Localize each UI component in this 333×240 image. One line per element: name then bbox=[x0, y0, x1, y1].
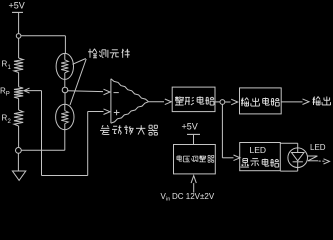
svg-text:LED: LED bbox=[250, 145, 267, 155]
svg-text:LED: LED bbox=[310, 143, 326, 152]
svg-text:P: P bbox=[6, 92, 10, 98]
svg-text:in: in bbox=[166, 197, 170, 203]
svg-text:DC 12V±2V: DC 12V±2V bbox=[172, 192, 215, 201]
svg-text:+5V: +5V bbox=[9, 1, 25, 11]
svg-text:1: 1 bbox=[8, 65, 12, 71]
svg-text:+5V: +5V bbox=[182, 122, 198, 132]
svg-text:2: 2 bbox=[8, 119, 12, 125]
